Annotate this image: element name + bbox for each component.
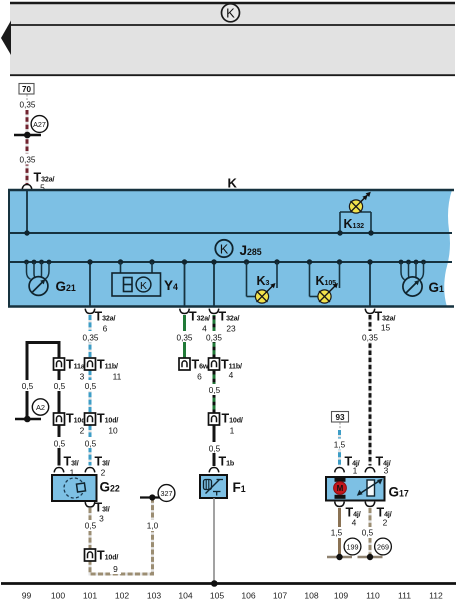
svg-text:15: 15: [381, 323, 391, 333]
svg-text:23: 23: [226, 324, 236, 334]
svg-text:0,35: 0,35: [206, 334, 222, 343]
connector T10d/9: [85, 549, 96, 561]
connector arch T4j/3: [365, 468, 375, 473]
connector T11b/4: [209, 358, 220, 370]
svg-text:106: 106: [241, 591, 256, 600]
svg-text:0,35: 0,35: [20, 156, 36, 165]
svg-text:0,5: 0,5: [209, 445, 221, 454]
wire br/ws G17 to ground 269: [368, 508, 371, 556]
svg-text:6: 6: [197, 372, 202, 382]
svg-text:111: 111: [398, 591, 411, 600]
node entry on bus1: [24, 230, 29, 235]
svg-text:3: 3: [99, 514, 104, 524]
connector cup T32a/4: [180, 309, 190, 314]
lamp K105: [307, 259, 342, 303]
gauge G21: [24, 260, 76, 296]
connector T11b/11: [85, 358, 96, 370]
connector T10d/1: [209, 413, 220, 425]
lamp K3: [244, 259, 280, 303]
oil pressure switch F1: [200, 475, 246, 498]
wire ws/maroon 70 to T32a/5: [25, 110, 28, 184]
circled K symbol (top): [222, 4, 240, 22]
ground point 269: [375, 538, 392, 555]
svg-text:K: K: [140, 280, 147, 292]
svg-text:K: K: [226, 6, 235, 21]
band inner line: [10, 24, 455, 26]
sender G22: [52, 475, 120, 501]
svg-text:327: 327: [161, 489, 173, 498]
svg-text:A27: A27: [33, 120, 46, 129]
svg-text:1,5: 1,5: [331, 529, 343, 538]
svg-text:0,35: 0,35: [83, 334, 99, 343]
connector arch T4j/1: [335, 468, 345, 473]
lead from 93 box: [339, 423, 341, 430]
gauge G1: [399, 260, 444, 297]
svg-text:11: 11: [113, 372, 122, 382]
connector arch T3l/1: [54, 468, 64, 473]
wire br G17 to ground 199: [338, 508, 341, 556]
svg-text:1,5: 1,5: [334, 441, 346, 450]
svg-text:0,5: 0,5: [85, 382, 97, 391]
connector cup T32a/6: [85, 309, 95, 314]
ground point 199: [344, 538, 361, 555]
bus wire 1 (K line): [9, 232, 452, 234]
svg-text:0,5: 0,5: [54, 440, 66, 449]
svg-text:1,0: 1,0: [147, 522, 159, 531]
connector T10d/2: [54, 413, 65, 425]
wire sw/ws T32a/15 to G17: [368, 315, 371, 466]
control unit J285 band: [8, 190, 452, 307]
svg-text:3: 3: [80, 372, 85, 382]
svg-text:0,5: 0,5: [85, 440, 97, 449]
svg-text:269: 269: [377, 542, 389, 551]
svg-text:93: 93: [335, 413, 345, 422]
wire stub exit T32a/15: [369, 262, 371, 306]
splice junction at A27: [14, 134, 41, 137]
connector cup T32a/15: [365, 309, 375, 314]
continuation band (top grey): [10, 2, 455, 76]
connector arch T32a/5: [22, 185, 32, 190]
terminal 70 box: [19, 84, 34, 95]
svg-text:2: 2: [101, 468, 106, 478]
svg-text:110: 110: [366, 591, 380, 600]
svg-text:105: 105: [210, 591, 225, 600]
connector T6w/6: [179, 358, 190, 370]
ground node 105: [211, 580, 218, 587]
J285 band top border: [8, 189, 454, 191]
svg-text:10: 10: [108, 426, 118, 436]
direction arrow (left): [1, 21, 11, 56]
splice 327: [140, 496, 163, 498]
connection A2: [32, 399, 48, 415]
connector arch T3l/2: [85, 468, 95, 473]
wire size 0,35: [19, 154, 36, 165]
svg-text:107: 107: [273, 591, 288, 600]
svg-text:101: 101: [83, 591, 98, 600]
J285 band bottom border: [8, 305, 454, 307]
svg-text:4: 4: [229, 370, 234, 380]
bus wire 2: [9, 261, 452, 263]
svg-text:9: 9: [113, 564, 118, 574]
svg-text:3: 3: [384, 466, 389, 476]
connector cup T4j/2: [365, 502, 375, 507]
band bottom border: [10, 74, 455, 76]
wire entry T32a/5 to bus1: [26, 190, 28, 233]
bottom rail: [1, 582, 456, 585]
svg-text:109: 109: [334, 591, 349, 600]
svg-text:0,5: 0,5: [54, 382, 66, 391]
band top border: [10, 2, 455, 5]
wire stub exit T32a/6: [89, 262, 91, 306]
svg-text:0,5: 0,5: [85, 522, 97, 531]
svg-text:0,35: 0,35: [177, 334, 193, 343]
wire stub exit T32a/4: [184, 262, 186, 306]
svg-text:100: 100: [51, 591, 66, 600]
svg-text:104: 104: [178, 591, 193, 600]
connector cup T4j/4: [335, 502, 345, 507]
svg-text:K: K: [228, 176, 238, 191]
svg-text:199: 199: [347, 542, 359, 551]
svg-text:0,5: 0,5: [209, 386, 221, 395]
control unit designation J285: [215, 240, 262, 258]
svg-text:2: 2: [383, 518, 388, 528]
wire br/ws G22 to splice 327: [90, 499, 153, 574]
lead from 70 box: [26, 95, 28, 101]
wire gn/sw T32a/23 to T10d/1: [213, 315, 216, 358]
J285 band left border: [8, 190, 10, 307]
wire gn T32a/4 to T6w/6: [183, 315, 186, 358]
svg-text:112: 112: [429, 591, 443, 600]
connector cup T3l/3: [85, 502, 95, 507]
wire bl/ws 93 to G17: [338, 430, 341, 466]
terminal 93 box: [332, 412, 349, 423]
sender G17 with pump: [326, 477, 409, 501]
svg-text:103: 103: [147, 591, 162, 600]
lamp K132: [337, 192, 373, 236]
wire F1 to ground rail: [213, 498, 215, 583]
svg-text:6: 6: [103, 324, 108, 334]
connector cup T32a/23: [209, 309, 219, 314]
wire bl/ws T32a/6 to G22: [88, 315, 91, 358]
connector arch T1b: [209, 468, 219, 473]
svg-text:2: 2: [80, 426, 85, 436]
svg-text:70: 70: [22, 85, 32, 94]
wire sw harness A2 loop: [27, 343, 59, 420]
svg-text:108: 108: [304, 591, 319, 600]
svg-text:0,35: 0,35: [20, 101, 36, 110]
svg-text:A2: A2: [36, 403, 45, 412]
connector T11a/3: [54, 358, 65, 370]
svg-text:0,5: 0,5: [22, 382, 34, 391]
svg-text:102: 102: [115, 591, 130, 600]
svg-text:1: 1: [230, 426, 235, 436]
connection A27: [31, 116, 48, 133]
wire stub exit T32a/23: [213, 262, 215, 306]
wire sw T11a/3 to T10d/2: [58, 370, 61, 413]
svg-text:99: 99: [22, 591, 32, 600]
svg-text:0,35: 0,35: [362, 334, 378, 343]
svg-text:4: 4: [352, 518, 357, 528]
wire sw T10d/1 to F1: [213, 425, 216, 466]
wire sw T10d/2 to G22: [58, 425, 61, 466]
svg-text:1: 1: [353, 466, 358, 476]
connector T10d/10: [85, 413, 96, 425]
splice junction at A2: [15, 418, 41, 421]
white backers for wire size labels: [19, 380, 36, 391]
svg-text:0,5: 0,5: [362, 529, 374, 538]
svg-text:M: M: [337, 484, 344, 493]
display unit Y4: [112, 259, 178, 296]
svg-text:K: K: [220, 242, 229, 256]
